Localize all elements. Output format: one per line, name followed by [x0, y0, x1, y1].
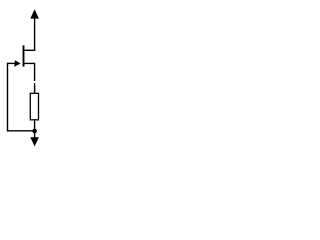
transistor Q1 channel bar — [23, 45, 25, 66]
wire: bottom horizontal — [7, 130, 35, 132]
wire: gate lead — [8, 62, 16, 64]
transistor Q1 gate arrowhead — [14, 60, 21, 67]
wire: stub to bottom arrow — [34, 131, 36, 138]
wire: resistor bottom lead — [34, 120, 36, 131]
top supply arrow (up) — [30, 9, 39, 18]
wire: drain vertical — [34, 18, 36, 51]
junction node dot — [32, 129, 37, 134]
wire: left loop vertical — [7, 63, 9, 131]
wire: drain horizontal to JFET channel — [23, 49, 36, 51]
wire: lead to resistor top — [34, 83, 36, 93]
wire: source horizontal and down — [24, 63, 35, 81]
resistor R1 body — [30, 93, 38, 120]
bottom arrow (down) — [30, 137, 39, 146]
